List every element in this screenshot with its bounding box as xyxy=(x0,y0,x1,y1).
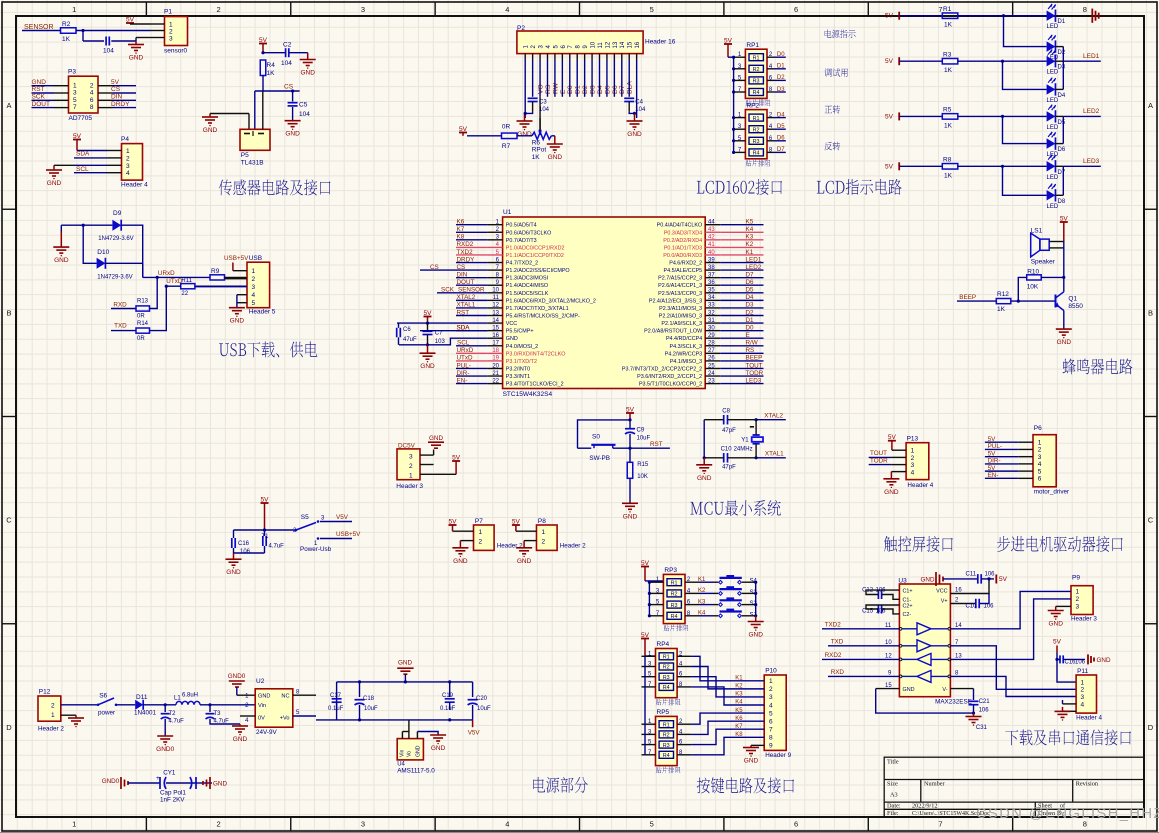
svg-text:8: 8 xyxy=(1083,5,1087,14)
ground GND under C16 xyxy=(226,558,242,560)
svg-text:R12: R12 xyxy=(997,291,1009,298)
svg-text:5: 5 xyxy=(1038,468,1042,475)
wire+net RS MCU pin 27 xyxy=(720,352,763,354)
wire+net K5 MCU pin 44 xyxy=(720,224,763,226)
svg-text:RP3: RP3 xyxy=(664,567,677,574)
svg-text:P4.4/RD/CCP4: P4.4/RD/CCP4 xyxy=(666,336,702,342)
svg-text:Number: Number xyxy=(924,781,946,788)
svg-text:R5: R5 xyxy=(943,107,952,114)
MCU pin 8 (P1.3/ADC3/MOSI) left xyxy=(488,277,503,279)
power ground bars right of C16 xyxy=(1087,654,1089,664)
svg-text:P1.7/ADC7/TXD_3/XTAL1: P1.7/ADC7/TXD_3/XTAL1 xyxy=(506,306,569,312)
wire BEEP to R12 xyxy=(957,300,996,302)
svg-text:P13: P13 xyxy=(907,436,919,443)
svg-text:24: 24 xyxy=(708,371,715,377)
ground GND at buttons xyxy=(748,621,764,623)
svg-text:P3.4/T0/T1CLKO/ECI_2: P3.4/T0/T1CLKO/ECI_2 xyxy=(506,382,564,388)
svg-text:D7: D7 xyxy=(1058,170,1066,176)
MCU pin 9 (P1.4/ADC4/MISO) left xyxy=(488,284,503,286)
svg-text:P3.5/T1/T0CLKO/CCP0_2: P3.5/T1/T0CLKO/CCP0_2 xyxy=(639,382,702,388)
svg-text:TODR: TODR xyxy=(746,370,764,377)
svg-text:Vin: Vin xyxy=(258,703,266,709)
svg-text:18: 18 xyxy=(492,348,499,354)
svg-text:B: B xyxy=(1148,308,1153,317)
MCU pin 17 (P4.0/MOSI_2) left xyxy=(488,345,503,347)
wire caps to GND xyxy=(234,552,265,554)
svg-text:1: 1 xyxy=(169,22,173,29)
ground GND0 under T2 xyxy=(157,735,173,737)
svg-text:D3: D3 xyxy=(1058,65,1066,71)
wire+net D5 MCU pin 35 xyxy=(720,292,763,294)
svg-text:GND: GND xyxy=(226,569,241,576)
svg-text:10uF: 10uF xyxy=(477,706,491,712)
wire DC5V pin2 xyxy=(420,464,434,466)
svg-text:5: 5 xyxy=(650,5,654,14)
svg-text:3: 3 xyxy=(1081,694,1085,701)
LED D5 xyxy=(1047,111,1056,121)
ground GND at P8 xyxy=(524,540,536,542)
MCU pin 23 (P3.5/T1/T0CLKO/CCP0_2) right xyxy=(705,383,720,385)
wire DC5V pin3 to GND xyxy=(420,454,434,456)
svg-text:6.8uH: 6.8uH xyxy=(182,693,198,699)
svg-text:106: 106 xyxy=(985,572,996,578)
svg-text:UTxD: UTxD xyxy=(457,355,474,362)
wire+net D7 MCU pin 37 xyxy=(720,277,763,279)
section title sensor circuit xyxy=(219,179,331,195)
svg-text:USB+5V: USB+5V xyxy=(224,255,249,262)
svg-text:P4.6/RXD2_2: P4.6/RXD2_2 xyxy=(669,261,702,267)
wire+net R/W MCU pin 28 xyxy=(720,345,763,347)
push button S3 xyxy=(720,588,742,590)
svg-text:P0.0/AD0/RXD3: P0.0/AD0/RXD3 xyxy=(663,253,702,259)
svg-text:TXD2: TXD2 xyxy=(457,249,474,256)
svg-text:K3: K3 xyxy=(746,234,754,241)
LED D2 xyxy=(1047,41,1056,51)
wire/pin P3 row 3 right net DIN xyxy=(98,99,113,101)
svg-text:Size: Size xyxy=(887,781,898,788)
svg-text:XTAL1: XTAL1 xyxy=(457,302,476,309)
ground GND at crystal xyxy=(696,464,712,466)
svg-text:GND: GND xyxy=(420,363,435,370)
svg-text:GND: GND xyxy=(623,513,638,520)
wire R10 left to BEEP junction xyxy=(1018,277,1026,301)
svg-text:Power-Usb: Power-Usb xyxy=(300,546,332,553)
wire/pin P3 row 1 right net 5V xyxy=(98,85,113,87)
wire/pin P3 row 2 right net CS xyxy=(98,92,113,94)
svg-text:R3: R3 xyxy=(671,603,678,609)
svg-text:T2: T2 xyxy=(169,711,177,717)
svg-text:Cap Pol1: Cap Pol1 xyxy=(160,790,186,797)
MCU pin 3 (P0.7/AD7/T3) left xyxy=(488,239,503,241)
svg-text:P2.4/A12/ECI_3/SS_3: P2.4/A12/ECI_3/SS_3 xyxy=(649,298,702,304)
svg-text:R1: R1 xyxy=(943,6,952,13)
wire+net LED3 MCU pin 23 xyxy=(720,383,763,385)
svg-text:16: 16 xyxy=(635,41,641,48)
svg-text:1: 1 xyxy=(72,5,76,14)
svg-text:1: 1 xyxy=(479,529,483,536)
RP2 internal resistor R2 xyxy=(749,126,763,133)
svg-text:5V: 5V xyxy=(885,13,894,20)
svg-text:P9: P9 xyxy=(1072,575,1080,582)
svg-text:1: 1 xyxy=(126,148,130,155)
svg-text:R2: R2 xyxy=(753,67,760,73)
svg-text:PUL-: PUL- xyxy=(988,443,1002,450)
svg-text:K5: K5 xyxy=(746,219,754,226)
svg-text:2: 2 xyxy=(216,820,220,829)
ground GND left of TL431 xyxy=(209,114,211,118)
svg-text:D7: D7 xyxy=(777,147,785,153)
svg-text:TL431B: TL431B xyxy=(241,160,264,167)
svg-text:R4: R4 xyxy=(663,753,670,759)
svg-text:C20: C20 xyxy=(476,696,488,702)
wire P6 pin 5 net 5V xyxy=(985,470,1018,472)
svg-text:D2: D2 xyxy=(1058,50,1066,56)
svg-text:21: 21 xyxy=(492,371,499,377)
wire P6 pin 1 net 5V xyxy=(985,441,1018,443)
svg-text:DOUT: DOUT xyxy=(32,101,50,108)
svg-text:+Vo: +Vo xyxy=(280,716,290,722)
svg-text:10uF: 10uF xyxy=(364,706,378,712)
svg-text:P0.1/AD1/TXD3: P0.1/AD1/TXD3 xyxy=(664,245,702,251)
svg-text:11: 11 xyxy=(598,42,604,49)
wire S0 loop to 5V xyxy=(578,420,631,448)
svg-text:R1: R1 xyxy=(663,655,670,661)
svg-text:27: 27 xyxy=(708,348,715,354)
svg-text:URxD: URxD xyxy=(457,347,474,354)
svg-text:3: 3 xyxy=(169,36,173,43)
wire+net LED2 MCU pin 38 xyxy=(720,269,763,271)
svg-text:BEEP: BEEP xyxy=(746,355,763,362)
RP1 internal resistor R4 xyxy=(749,89,763,96)
svg-text:D4: D4 xyxy=(597,85,604,94)
MCU pin 10 (P1.5/ADC5/SCLK) left xyxy=(488,292,503,294)
ground GND under P2 pin16 xyxy=(634,113,636,121)
svg-text:30: 30 xyxy=(708,325,715,331)
svg-text:Vin: Vin xyxy=(400,749,406,757)
resistor R4 xyxy=(260,60,266,76)
svg-text:25: 25 xyxy=(708,363,715,369)
wire+net K4 MCU pin 43 xyxy=(720,231,763,233)
wire R12 to Q1 base xyxy=(1011,300,1056,302)
svg-text:D5: D5 xyxy=(604,85,611,94)
svg-text:47pF: 47pF xyxy=(722,428,736,434)
svg-text:1K: 1K xyxy=(997,306,1006,313)
wire P11 pin3 long xyxy=(1063,703,1077,705)
svg-text:SCL: SCL xyxy=(76,166,89,173)
svg-text:10: 10 xyxy=(885,640,892,646)
svg-text:3: 3 xyxy=(126,163,130,170)
svg-text:C: C xyxy=(1148,516,1154,525)
svg-text:Title: Title xyxy=(887,759,899,766)
ground GND under T3 xyxy=(239,724,241,726)
svg-text:41: 41 xyxy=(708,242,715,248)
power net V5V xyxy=(472,720,474,727)
svg-text:0R: 0R xyxy=(502,124,511,131)
wire USB+5V to pin1 xyxy=(232,263,234,271)
svg-text:11: 11 xyxy=(885,623,892,629)
svg-text:104: 104 xyxy=(299,111,310,118)
svg-text:P2.6/A14/CCP1_3: P2.6/A14/CCP1_3 xyxy=(658,283,702,289)
svg-text:P3.1/TXD/T2: P3.1/TXD/T2 xyxy=(506,359,537,365)
svg-text:RS: RS xyxy=(545,84,552,94)
svg-text:P3.0/RXD/INT4/T2CLKO: P3.0/RXD/INT4/T2CLKO xyxy=(506,351,566,357)
svg-text:P10: P10 xyxy=(765,668,777,675)
wire+net SDA MCU pin 15 xyxy=(456,330,488,332)
svg-text:5V: 5V xyxy=(988,436,997,443)
wire pin4 pin5 to GND xyxy=(237,294,247,296)
svg-text:10K: 10K xyxy=(1027,284,1039,291)
MCU pin 25 (P3.7/INT3/TXD_2/CCP2/CCP2_2) right xyxy=(705,367,720,369)
svg-text:P1.0/ADC0/CCP1/RXD2: P1.0/ADC0/CCP1/RXD2 xyxy=(506,245,565,251)
svg-text:Header 3: Header 3 xyxy=(1071,616,1097,623)
svg-text:D6: D6 xyxy=(777,136,785,142)
svg-text:4.7uF: 4.7uF xyxy=(169,719,185,725)
svg-text:R2: R2 xyxy=(753,127,760,133)
svg-text:P5.4/RST/MCLKO/SS_2/CMP-: P5.4/RST/MCLKO/SS_2/CMP- xyxy=(506,314,580,320)
RP3 internal resistor R3 xyxy=(667,601,681,608)
svg-text:12: 12 xyxy=(492,303,499,309)
svg-text:D5: D5 xyxy=(777,124,785,130)
push button S2 xyxy=(720,599,742,601)
svg-text:LED2: LED2 xyxy=(746,264,762,271)
MCU pin 2 (P0.6/AD6/T3CLKO) left xyxy=(488,231,503,233)
label chip resistor pack xyxy=(746,160,771,167)
MCU pin 24 (P3.6/INT2/RXD_2/CCP1_2) right xyxy=(705,375,720,377)
svg-text:P3.2/INT0: P3.2/INT0 xyxy=(506,366,530,372)
svg-text:D5: D5 xyxy=(746,287,755,294)
svg-text:AMS1117-5.0: AMS1117-5.0 xyxy=(397,768,435,775)
svg-text:C16: C16 xyxy=(238,541,250,547)
svg-text:R1: R1 xyxy=(753,116,760,122)
svg-text:0R: 0R xyxy=(137,336,145,342)
svg-text:P1.4/ADC4/MISO: P1.4/ADC4/MISO xyxy=(506,283,548,289)
svg-text:P2.0/A8/RSTOUT_LOW: P2.0/A8/RSTOUT_LOW xyxy=(644,329,703,335)
wire R3 to D3 anode and branch to D4 xyxy=(958,60,1047,62)
wire R8 to D7 anode and branch to D8 xyxy=(958,165,1047,167)
svg-text:P1.2/ADC2/SS/ECI/CMPO: P1.2/ADC2/SS/ECI/CMPO xyxy=(506,268,570,274)
svg-text:14: 14 xyxy=(492,318,499,324)
capacitor C9 10uF xyxy=(629,420,631,428)
svg-text:1K: 1K xyxy=(62,36,71,43)
svg-text:A: A xyxy=(6,101,11,110)
svg-text:CS: CS xyxy=(457,264,466,271)
svg-text:R7: R7 xyxy=(502,143,511,150)
svg-text:RST: RST xyxy=(457,309,470,316)
svg-text:43: 43 xyxy=(708,227,715,233)
svg-text:1nF 2KV: 1nF 2KV xyxy=(160,797,185,804)
svg-text:RPot: RPot xyxy=(532,147,547,154)
svg-text:File:: File: xyxy=(887,810,899,817)
comment label forward xyxy=(825,105,841,114)
svg-text:37: 37 xyxy=(708,272,715,278)
wire branch down to D10 xyxy=(83,225,96,263)
svg-text:K8: K8 xyxy=(457,234,465,241)
svg-text:5V: 5V xyxy=(988,450,997,457)
svg-text:GND: GND xyxy=(129,55,144,62)
svg-text:7: 7 xyxy=(73,104,77,111)
svg-text:3: 3 xyxy=(252,284,256,291)
capacitor C19 0.1uF xyxy=(449,682,451,697)
svg-text:CS: CS xyxy=(111,86,121,93)
wire R2 to P1 pin2 xyxy=(76,30,151,32)
svg-text:P7: P7 xyxy=(475,518,483,525)
wire CS row down to TL431 pin1 xyxy=(254,91,256,129)
svg-text:4: 4 xyxy=(505,5,509,14)
svg-text:XTAL2: XTAL2 xyxy=(457,294,476,301)
svg-text:3: 3 xyxy=(1038,454,1042,461)
MCU pin 16 (GND) left xyxy=(488,337,503,339)
svg-text:T3: T3 xyxy=(214,711,222,717)
svg-text:13: 13 xyxy=(492,310,499,316)
svg-text:RST: RST xyxy=(32,86,45,93)
svg-text:P0.5/AD5/T4: P0.5/AD5/T4 xyxy=(506,223,537,229)
wire from left GND to TL431 xyxy=(210,113,249,115)
wire D10 cathode to UTxD bus xyxy=(105,262,142,264)
ground GND under C21 xyxy=(966,716,982,718)
svg-text:GND: GND xyxy=(230,318,245,325)
RP3 internal resistor R2 xyxy=(667,590,681,597)
svg-text:C3: C3 xyxy=(539,100,547,106)
svg-text:2: 2 xyxy=(1081,687,1085,694)
svg-text:5V: 5V xyxy=(885,113,894,120)
section title touch screen interface xyxy=(884,536,953,552)
RP3 internal resistor R1 xyxy=(667,579,681,586)
wire+net EN- MCU pin 22 xyxy=(456,383,488,385)
svg-text:P8: P8 xyxy=(538,518,546,525)
svg-text:Y1: Y1 xyxy=(741,438,749,444)
resistor R15 10K xyxy=(629,448,631,462)
wire+net DRDY MCU pin 6 xyxy=(456,262,488,264)
svg-text:D3: D3 xyxy=(746,302,755,309)
svg-text:TXD: TXD xyxy=(114,323,127,330)
svg-text:0V: 0V xyxy=(258,716,265,722)
svg-text:sensor0: sensor0 xyxy=(164,48,188,55)
wire+net XTAL1 MCU pin 12 xyxy=(456,307,488,309)
ground GND at RPot xyxy=(547,143,563,145)
node junction 5V/R4/C2 xyxy=(261,51,264,54)
wire R7 to RPot xyxy=(517,135,532,137)
svg-text:P4.7/TXD2_2: P4.7/TXD2_2 xyxy=(506,261,538,267)
svg-text:6: 6 xyxy=(769,718,773,725)
svg-text:D6: D6 xyxy=(1058,147,1066,153)
svg-text:B: B xyxy=(6,308,11,317)
MCU pin 31 (P2.1/A9/SCLK_3) right xyxy=(705,322,720,324)
svg-text:P5: P5 xyxy=(241,152,249,159)
svg-text:C2: C2 xyxy=(283,42,292,49)
svg-text:P3: P3 xyxy=(68,69,76,76)
capacitor T3 4.7uF xyxy=(209,705,211,712)
svg-text:104: 104 xyxy=(635,107,646,113)
comment label power indicator xyxy=(825,29,856,38)
svg-text:R4: R4 xyxy=(671,614,678,620)
MCU pin 13 (P5.4/RST/MCLKO/SS_2/CMP-) left xyxy=(488,315,503,317)
svg-text:R4: R4 xyxy=(753,151,760,157)
MCU pin 44 (P0.4/AD4/T4CLKO) right xyxy=(705,224,720,226)
svg-text:DRDY: DRDY xyxy=(111,101,130,108)
svg-text:33: 33 xyxy=(708,303,715,309)
svg-text:R8: R8 xyxy=(943,157,952,164)
svg-text:12: 12 xyxy=(885,654,892,660)
RP2 bus wire xyxy=(733,118,735,153)
MCU pin 21 (P3.3/INT1) left xyxy=(488,375,503,377)
svg-text:NC: NC xyxy=(281,694,289,700)
resistor R1 1K xyxy=(942,13,958,19)
svg-text:29: 29 xyxy=(708,333,715,339)
wire D11 to L1 junction xyxy=(143,704,176,706)
svg-text:24MHz: 24MHz xyxy=(734,447,753,453)
node junction T1 xyxy=(263,528,266,531)
svg-text:AD7705: AD7705 xyxy=(69,115,93,122)
svg-text:K6: K6 xyxy=(457,219,465,226)
RP5 internal resistor R1 xyxy=(659,721,673,728)
svg-text:Header 16: Header 16 xyxy=(645,39,676,46)
wire+net DOUT MCU pin 9 xyxy=(456,284,488,286)
section title power section xyxy=(533,777,588,793)
svg-text:D1: D1 xyxy=(1058,19,1066,25)
ground GND right of U4 xyxy=(430,734,446,736)
svg-text:4: 4 xyxy=(1081,702,1085,709)
svg-text:P4.5/ALE/CCP5: P4.5/ALE/CCP5 xyxy=(664,268,703,274)
svg-text:C17: C17 xyxy=(330,693,342,699)
wire VCC row pin14 xyxy=(397,322,488,324)
svg-text:GND: GND xyxy=(748,632,763,639)
net SCK extended wire pin10 xyxy=(437,292,488,294)
wire R5 to D5 anode and branch to D6 xyxy=(958,115,1047,117)
svg-text:+: + xyxy=(156,775,160,782)
svg-text:D1: D1 xyxy=(746,317,755,324)
wire/pin P3 row 2 left net RST xyxy=(32,92,55,94)
wire R9 to pin2 xyxy=(225,278,248,280)
svg-text:V-: V- xyxy=(942,687,947,693)
svg-text:9: 9 xyxy=(769,743,773,750)
wire R1 to D1 anode and branch to D2 xyxy=(958,15,1047,17)
svg-text:5V: 5V xyxy=(1053,639,1062,646)
svg-text:5V: 5V xyxy=(111,79,120,86)
MCU pin 35 (P2.5/A13/CCP0_3) right xyxy=(705,292,720,294)
svg-text:R14: R14 xyxy=(137,321,149,327)
MCU pin 20 (P3.2/INT0) left xyxy=(488,367,503,369)
svg-text:4.7uF: 4.7uF xyxy=(269,544,285,550)
RP4 internal resistor R2 xyxy=(659,663,673,670)
wire+net K8 MCU pin 3 xyxy=(456,239,488,241)
svg-text:0R: 0R xyxy=(137,314,145,320)
wire junction down to C1 xyxy=(82,31,84,42)
MCU pin 29 (P4.4/RD/CCP4) right xyxy=(705,337,720,339)
svg-text:RXD: RXD xyxy=(831,669,845,676)
svg-text:DOUT: DOUT xyxy=(457,279,475,286)
svg-text:P6: P6 xyxy=(1034,425,1042,432)
svg-text:6: 6 xyxy=(794,820,798,829)
svg-text:DIN: DIN xyxy=(111,94,123,101)
wire R4 down to CS node xyxy=(262,76,264,92)
svg-text:7: 7 xyxy=(938,820,942,829)
svg-text:GND: GND xyxy=(884,489,899,496)
svg-text:1K: 1K xyxy=(944,172,953,179)
MCU pin 26 (P4.1/MISO_3) right xyxy=(705,360,720,362)
svg-text:GND0: GND0 xyxy=(156,746,174,753)
ground GND left of D9/D10 xyxy=(60,232,62,248)
svg-text:2: 2 xyxy=(911,455,915,462)
wire GND riser up to P1 pin3 xyxy=(135,38,137,42)
potentiometer R6 RPot 1K xyxy=(532,132,551,139)
svg-text:Vo: Vo xyxy=(407,751,413,757)
ground GND at C1 xyxy=(135,41,137,45)
svg-text:P1.1/ADC1/CCP0/TXD2: P1.1/ADC1/CCP0/TXD2 xyxy=(506,253,564,259)
svg-text:17: 17 xyxy=(492,341,499,347)
svg-text:Header 4: Header 4 xyxy=(121,182,148,189)
svg-text:PUL-: PUL- xyxy=(457,362,471,369)
svg-text:C19: C19 xyxy=(442,693,454,699)
